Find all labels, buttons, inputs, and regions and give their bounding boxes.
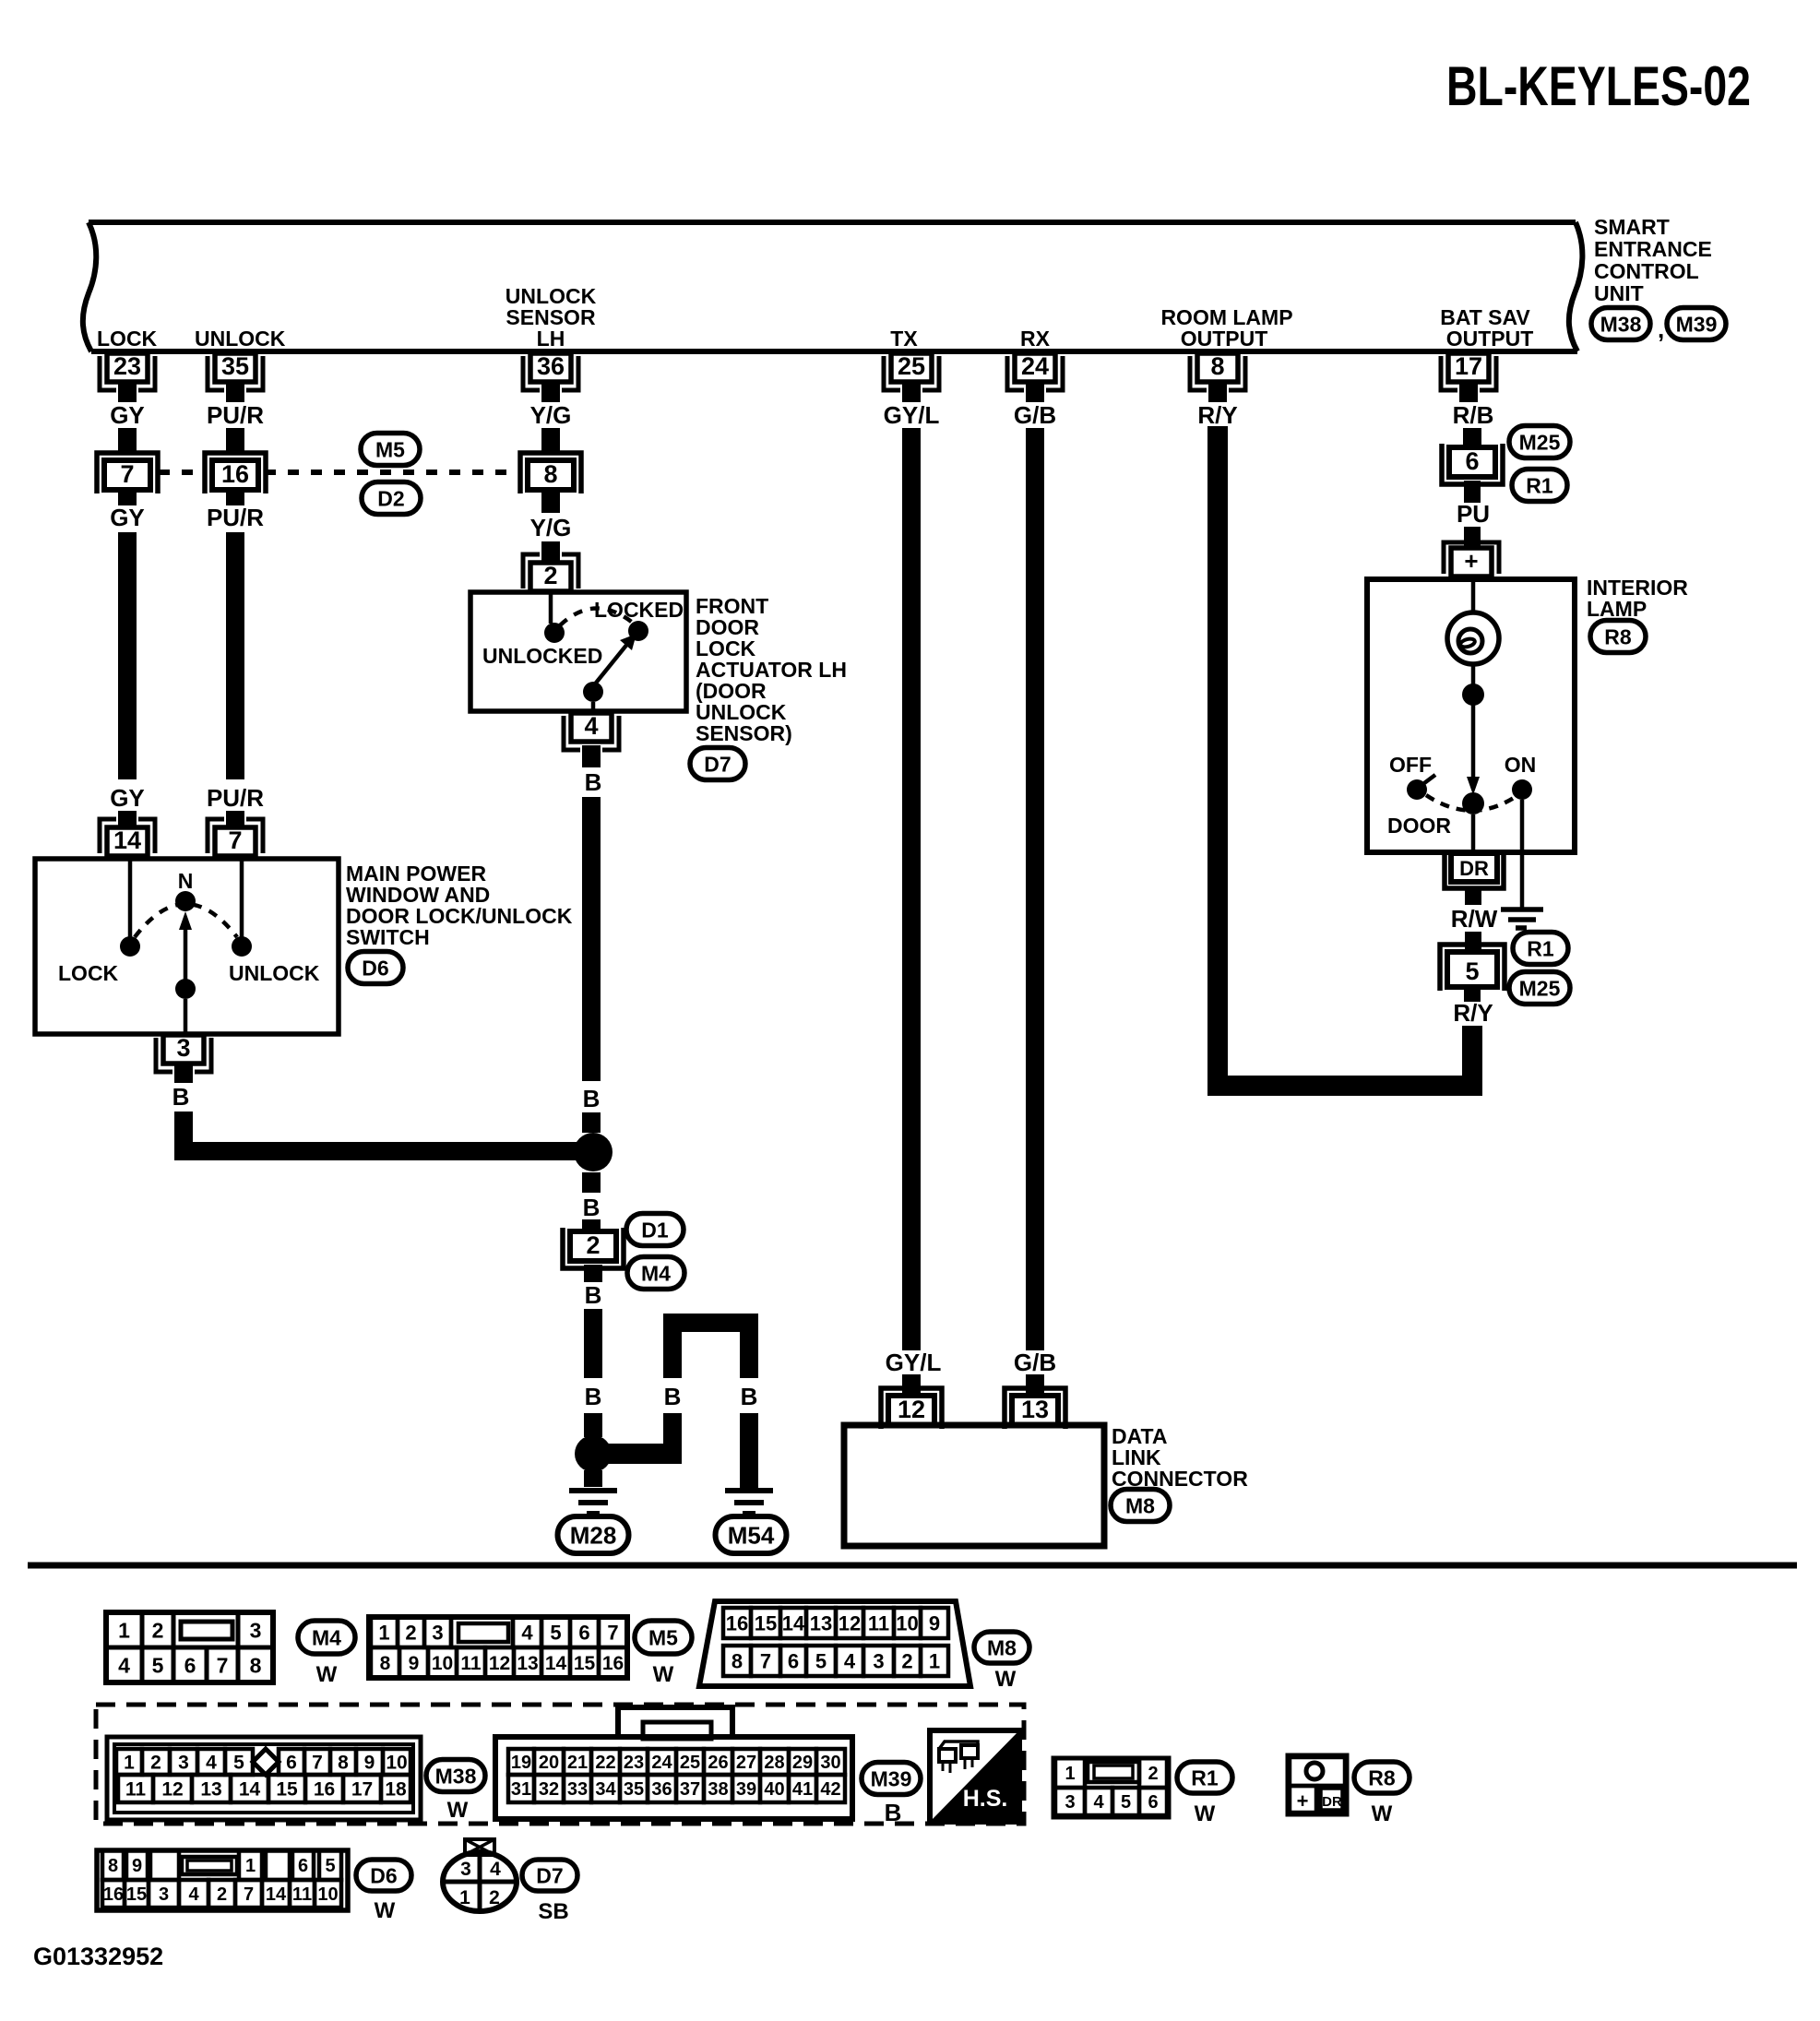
svg-text:RX: RX: [1020, 327, 1051, 351]
pin DR: [1445, 850, 1504, 888]
wire stub: [226, 811, 244, 827]
svg-text:R/B: R/B: [1453, 401, 1494, 429]
svg-text:27: 27: [736, 1753, 756, 1773]
svg-text:D6: D6: [362, 956, 388, 980]
svg-text:29: 29: [792, 1753, 813, 1773]
svg-text:H.S.: H.S.: [963, 1786, 1008, 1812]
svg-text:34: 34: [595, 1779, 616, 1800]
wire stub: [118, 492, 137, 505]
connector M38 label: [1591, 308, 1650, 340]
connector R1 label: [1513, 933, 1568, 965]
svg-text:+: +: [1464, 547, 1478, 575]
wire stub: [174, 1064, 193, 1083]
svg-text:W: W: [375, 1898, 396, 1923]
wire PU: [1464, 527, 1481, 548]
wire stub: [1026, 1374, 1044, 1396]
connector M25 label: [1509, 426, 1570, 458]
svg-text:10: 10: [317, 1884, 338, 1905]
wire stub: [541, 382, 560, 402]
pin 35 UNLOCK: [215, 353, 256, 382]
svg-text:12: 12: [161, 1779, 183, 1801]
svg-text:M8: M8: [987, 1635, 1017, 1659]
svg-text:OUTPUT: OUTPUT: [1446, 327, 1534, 351]
svg-text:D7: D7: [536, 1863, 563, 1887]
separator line: [28, 1563, 1797, 1569]
svg-text:2: 2: [489, 1887, 500, 1908]
svg-text:11: 11: [460, 1653, 482, 1674]
pin 7: [215, 827, 256, 856]
svg-text:8: 8: [543, 460, 557, 488]
svg-text:38: 38: [708, 1779, 728, 1800]
svg-text:7: 7: [244, 1884, 254, 1905]
svg-text:13: 13: [1021, 1396, 1049, 1423]
connector R1 label: [1512, 470, 1567, 502]
svg-text:W: W: [1372, 1801, 1393, 1826]
wire: [240, 856, 244, 937]
wire stub B: [582, 745, 601, 767]
svg-text:LOCK: LOCK: [58, 961, 119, 985]
svg-text:17: 17: [1455, 352, 1482, 380]
svg-text:M25: M25: [1519, 976, 1561, 1000]
svg-text:SENSOR): SENSOR): [696, 721, 792, 745]
svg-text:1: 1: [124, 1753, 135, 1774]
svg-text:2: 2: [152, 1618, 164, 1642]
svg-text:23: 23: [113, 352, 141, 380]
connector view D7: [443, 1852, 517, 1911]
svg-text:7: 7: [312, 1753, 323, 1774]
svg-text:14: 14: [545, 1653, 567, 1674]
svg-text:10: 10: [896, 1611, 918, 1635]
actuator arrow: [593, 643, 628, 686]
svg-text:28: 28: [764, 1753, 784, 1773]
pin 3: [163, 1035, 204, 1064]
contact OFF: [1407, 779, 1427, 800]
svg-text:15: 15: [126, 1884, 147, 1905]
pin 25 TX: [891, 353, 932, 382]
tick: [1424, 775, 1435, 783]
svg-text:GY/L: GY/L: [884, 401, 940, 429]
svg-text:22: 22: [595, 1753, 615, 1773]
svg-text:GY: GY: [110, 784, 145, 812]
svg-text:33: 33: [567, 1779, 588, 1800]
svg-text:UNLOCK: UNLOCK: [229, 961, 320, 985]
pin 12: [881, 1388, 942, 1429]
ground: [1501, 907, 1543, 912]
svg-text:Y/G: Y/G: [530, 401, 572, 429]
svg-text:DOOR: DOOR: [1387, 814, 1451, 838]
wire B: [582, 1219, 601, 1232]
switch arrow: [184, 924, 188, 980]
svg-text:25: 25: [680, 1753, 700, 1773]
svg-text:6: 6: [1465, 447, 1479, 475]
svg-text:9: 9: [132, 1856, 142, 1876]
svg-text:1: 1: [929, 1649, 940, 1672]
pin 2: [530, 563, 571, 591]
svg-text:10: 10: [386, 1753, 407, 1774]
svg-text:2: 2: [543, 562, 557, 589]
node: [1462, 684, 1484, 706]
svg-text:B: B: [585, 1281, 602, 1309]
svg-text:6: 6: [1148, 1792, 1158, 1813]
svg-text:UNLOCKED: UNLOCKED: [482, 644, 602, 668]
svg-text:39: 39: [736, 1779, 756, 1800]
svg-text:20: 20: [539, 1753, 559, 1773]
svg-text:SMART: SMART: [1594, 215, 1670, 239]
svg-text:3: 3: [1065, 1792, 1075, 1813]
wire stub: [226, 382, 244, 402]
wire stub: [118, 811, 137, 827]
svg-text:8: 8: [380, 1653, 391, 1674]
connector view M38: [107, 1737, 421, 1820]
common contact: [583, 682, 603, 702]
svg-text:12: 12: [839, 1611, 861, 1635]
svg-text:16: 16: [726, 1611, 748, 1635]
svg-text:1: 1: [378, 1621, 389, 1644]
svg-text:LH: LH: [537, 327, 565, 351]
svg-text:37: 37: [680, 1779, 700, 1800]
wire Y/G: [541, 541, 560, 564]
svg-text:SB: SB: [538, 1899, 568, 1924]
wire GY/L: [902, 428, 921, 1350]
svg-text:4: 4: [118, 1653, 130, 1677]
svg-text:3: 3: [432, 1621, 443, 1644]
svg-text:OUTPUT: OUTPUT: [1181, 327, 1268, 351]
svg-text:8: 8: [108, 1856, 118, 1876]
svg-text:3: 3: [178, 1753, 189, 1774]
wire stub: [118, 382, 137, 402]
svg-text:5: 5: [815, 1649, 827, 1672]
svg-text:OFF: OFF: [1389, 753, 1432, 777]
svg-text:W: W: [316, 1662, 338, 1687]
svg-text:3: 3: [250, 1618, 262, 1642]
svg-text:31: 31: [511, 1779, 531, 1800]
wire: [1471, 664, 1476, 686]
connector view M8: [699, 1601, 970, 1686]
svg-text:LAMP: LAMP: [1587, 597, 1647, 621]
svg-text:N: N: [178, 869, 194, 893]
svg-text:42: 42: [820, 1779, 840, 1800]
connector 8 (M5/D2): [520, 453, 581, 493]
wire B long: [582, 797, 601, 1081]
connector view R8: [1288, 1755, 1347, 1814]
connector view D6: [97, 1850, 348, 1910]
svg-text:14: 14: [266, 1884, 287, 1905]
pin 4: [571, 713, 612, 742]
svg-text:12: 12: [489, 1653, 510, 1674]
svg-text:17: 17: [351, 1779, 373, 1801]
wire stub: [1465, 932, 1481, 952]
connector view R1: [1053, 1758, 1169, 1817]
svg-text:B: B: [885, 1799, 902, 1826]
smart entrance control unit box: [89, 220, 1576, 225]
svg-text:W: W: [995, 1667, 1017, 1692]
svg-text:19: 19: [511, 1753, 531, 1773]
svg-text:1: 1: [118, 1618, 130, 1642]
svg-text:10: 10: [432, 1653, 453, 1674]
svg-text:TX: TX: [890, 327, 918, 351]
svg-text:B: B: [583, 1085, 601, 1112]
connector view M39: [495, 1737, 852, 1819]
svg-text:40: 40: [764, 1779, 784, 1800]
svg-text:4: 4: [490, 1859, 501, 1880]
connector 7 (M5/D2): [97, 453, 158, 493]
svg-text:6: 6: [298, 1856, 308, 1876]
wire B: [582, 1172, 601, 1193]
svg-text:8: 8: [1210, 352, 1224, 380]
wire to junction: [174, 1112, 193, 1160]
svg-text:2: 2: [901, 1649, 912, 1672]
svg-text:R1: R1: [1526, 473, 1553, 497]
pin +: [1451, 548, 1492, 577]
svg-text:M39: M39: [871, 1766, 912, 1790]
svg-text:W: W: [447, 1798, 469, 1823]
pin 8 ROOM LAMP OUTPUT: [1197, 353, 1238, 382]
svg-text:M4: M4: [641, 1261, 671, 1285]
svg-text:D2: D2: [377, 486, 404, 510]
ground M54: [725, 1488, 773, 1493]
svg-text:4: 4: [188, 1884, 199, 1905]
pin 14: [107, 827, 148, 856]
svg-text:16: 16: [221, 460, 249, 488]
svg-text:B: B: [583, 1194, 601, 1221]
wire stub: [902, 1374, 921, 1396]
pin 36 UNLOCK SENSOR LH: [530, 353, 571, 382]
svg-text:3: 3: [176, 1034, 190, 1062]
svg-text:25: 25: [898, 352, 925, 380]
wire to M54: [588, 1444, 672, 1464]
svg-text:14: 14: [782, 1611, 805, 1635]
connector 6 (M25/R1): [1442, 444, 1503, 484]
wire GY: [118, 532, 137, 779]
connector D1 label: [626, 1214, 684, 1246]
svg-text:DR: DR: [1322, 1794, 1342, 1810]
svg-text:13: 13: [200, 1779, 221, 1801]
svg-text:R/Y: R/Y: [1453, 999, 1493, 1027]
svg-text:B: B: [172, 1083, 190, 1111]
svg-text:36: 36: [651, 1779, 672, 1800]
contact UNLOCK: [232, 936, 252, 957]
wire: [591, 702, 596, 714]
svg-text:16: 16: [103, 1884, 124, 1905]
svg-text:D6: D6: [370, 1863, 397, 1887]
main power window and door lock/unlock switch box D6: [35, 859, 339, 1034]
svg-text:3: 3: [873, 1649, 884, 1672]
wire to ground: [584, 1470, 602, 1487]
wire B: [584, 1309, 602, 1378]
svg-text:GY: GY: [110, 504, 145, 531]
svg-text:BL-KEYLES-02: BL-KEYLES-02: [1446, 55, 1751, 117]
svg-text:7: 7: [607, 1621, 618, 1644]
svg-text:1: 1: [1065, 1764, 1075, 1784]
svg-text:Y/G: Y/G: [530, 514, 572, 541]
svg-text:4: 4: [521, 1621, 533, 1644]
svg-text:4: 4: [844, 1649, 856, 1672]
common contact: [1462, 792, 1484, 814]
data link connector box M8: [844, 1425, 1104, 1546]
svg-text:3: 3: [159, 1884, 169, 1905]
contact LOCK: [120, 936, 140, 957]
svg-text:LOCK: LOCK: [97, 327, 158, 351]
svg-text:30: 30: [820, 1753, 840, 1773]
contact ON: [1512, 779, 1532, 800]
svg-text:16: 16: [602, 1653, 624, 1674]
connector 2 (D1/M4): [563, 1228, 624, 1268]
svg-text:7: 7: [120, 460, 134, 488]
svg-text:7: 7: [760, 1649, 771, 1672]
wire B: [584, 1413, 602, 1437]
svg-text:B: B: [585, 1383, 602, 1410]
svg-text:35: 35: [221, 352, 249, 380]
wire R/B: [1463, 428, 1481, 449]
svg-text:B: B: [585, 768, 602, 796]
svg-text:41: 41: [792, 1779, 813, 1800]
svg-text:9: 9: [364, 1753, 375, 1774]
svg-text:35: 35: [624, 1779, 644, 1800]
pin 23 LOCK: [107, 353, 148, 382]
svg-text:9: 9: [929, 1611, 940, 1635]
svg-text:15: 15: [276, 1779, 298, 1801]
svg-text:6: 6: [578, 1621, 589, 1644]
wire stub: [1459, 382, 1478, 402]
svg-text:16: 16: [314, 1779, 335, 1801]
ground M28: [569, 1488, 617, 1493]
svg-text:5: 5: [1465, 957, 1479, 985]
svg-text:23: 23: [624, 1753, 644, 1773]
svg-text:24: 24: [651, 1753, 672, 1773]
svg-text:W: W: [1195, 1801, 1216, 1826]
svg-text:2: 2: [586, 1231, 600, 1259]
interior lamp box R8: [1367, 579, 1575, 852]
dashed harness line: [159, 470, 206, 475]
svg-text:R1: R1: [1191, 1765, 1219, 1789]
junction: [574, 1133, 613, 1171]
wire stub: [226, 492, 244, 505]
svg-text:4: 4: [1093, 1792, 1104, 1813]
svg-text:D7: D7: [704, 752, 731, 776]
wire stub: [1464, 481, 1481, 503]
svg-text:7: 7: [228, 826, 242, 854]
svg-text:D1: D1: [641, 1218, 669, 1242]
lamp arrow: [1471, 695, 1476, 778]
svg-text:R8: R8: [1368, 1765, 1396, 1789]
common contact: [175, 979, 196, 999]
svg-text:12: 12: [898, 1396, 925, 1423]
svg-text:M38: M38: [435, 1764, 477, 1788]
svg-text:ENTRANCE: ENTRANCE: [1594, 237, 1712, 261]
wire PU/R: [226, 428, 244, 454]
connector M4 label: [627, 1257, 684, 1290]
wire stub: [1026, 382, 1044, 402]
svg-text:14: 14: [113, 826, 141, 854]
svg-text:21: 21: [567, 1753, 588, 1773]
svg-text:LOCKED: LOCKED: [594, 598, 684, 622]
svg-text:36: 36: [537, 352, 565, 380]
wire stub: [1208, 382, 1227, 402]
connector R8 label: [1590, 621, 1646, 653]
wire ON to ground: [1520, 800, 1525, 908]
svg-text:M38: M38: [1600, 312, 1642, 336]
svg-text:8: 8: [732, 1649, 743, 1672]
svg-text:PU: PU: [1457, 500, 1490, 528]
wire: [549, 591, 553, 624]
svg-text:G/B: G/B: [1014, 401, 1056, 429]
wire stub: [1465, 888, 1481, 905]
svg-text:5: 5: [325, 1856, 335, 1876]
contact locked: [628, 621, 648, 641]
svg-text:CONTROL: CONTROL: [1594, 259, 1699, 283]
wire R/Y L-shape: [1218, 426, 1472, 1086]
junction: [575, 1435, 612, 1472]
connector 5 (R1/M25): [1440, 945, 1505, 991]
svg-text:GY: GY: [110, 401, 145, 429]
connector D2 label: [362, 482, 421, 515]
svg-text:14: 14: [239, 1779, 261, 1801]
svg-text:26: 26: [708, 1753, 728, 1773]
svg-text:2: 2: [150, 1753, 161, 1774]
connector view M5: [369, 1617, 627, 1678]
svg-text:1: 1: [459, 1887, 470, 1908]
svg-text:2: 2: [1148, 1764, 1158, 1784]
svg-text:4: 4: [206, 1753, 217, 1774]
svg-text:5: 5: [152, 1653, 164, 1677]
svg-text:R/W: R/W: [1451, 905, 1498, 933]
svg-text:M8: M8: [1125, 1493, 1155, 1517]
wire: [128, 856, 133, 937]
connector M8 label: [1111, 1490, 1170, 1522]
svg-text:M28: M28: [570, 1521, 617, 1549]
svg-text:B: B: [741, 1383, 758, 1410]
svg-text:+: +: [1297, 1789, 1309, 1813]
svg-text:G/B: G/B: [1014, 1349, 1056, 1376]
svg-text:6: 6: [184, 1653, 196, 1677]
svg-text:6: 6: [788, 1649, 799, 1672]
svg-text:ON: ON: [1505, 753, 1537, 777]
wire: [184, 999, 188, 1035]
wire B: [582, 1112, 601, 1133]
svg-text:DR: DR: [1459, 857, 1489, 880]
dashed actuator arc: [560, 608, 634, 625]
svg-text:9: 9: [409, 1653, 420, 1674]
svg-text:4: 4: [584, 712, 598, 740]
svg-text:13: 13: [517, 1653, 538, 1674]
svg-text:PU/R: PU/R: [207, 784, 264, 812]
connector M5 label: [361, 434, 420, 466]
svg-text:5: 5: [1121, 1792, 1131, 1813]
wire stub: [1464, 987, 1481, 1002]
svg-text:M25: M25: [1519, 430, 1561, 454]
svg-text:24: 24: [1021, 352, 1049, 380]
svg-text:18: 18: [385, 1779, 407, 1801]
svg-text:2: 2: [405, 1621, 416, 1644]
dashed switch arc: [135, 904, 237, 937]
svg-text:5: 5: [233, 1753, 244, 1774]
wire PU/R: [226, 532, 244, 779]
svg-text:GY/L: GY/L: [886, 1349, 942, 1376]
svg-text:SWITCH: SWITCH: [346, 925, 430, 949]
svg-text:UNLOCK: UNLOCK: [195, 327, 286, 351]
svg-text:8: 8: [250, 1653, 262, 1677]
svg-text:32: 32: [539, 1779, 559, 1800]
svg-text:1: 1: [245, 1856, 256, 1876]
svg-text:,: ,: [1658, 315, 1664, 343]
svg-text:8: 8: [338, 1753, 349, 1774]
svg-text:W: W: [653, 1662, 674, 1687]
wire stub: [902, 382, 921, 402]
node N: [175, 891, 196, 911]
svg-text:UNIT: UNIT: [1594, 281, 1644, 305]
connector D6 label: [348, 952, 403, 984]
H.S. mark: [930, 1730, 1019, 1822]
